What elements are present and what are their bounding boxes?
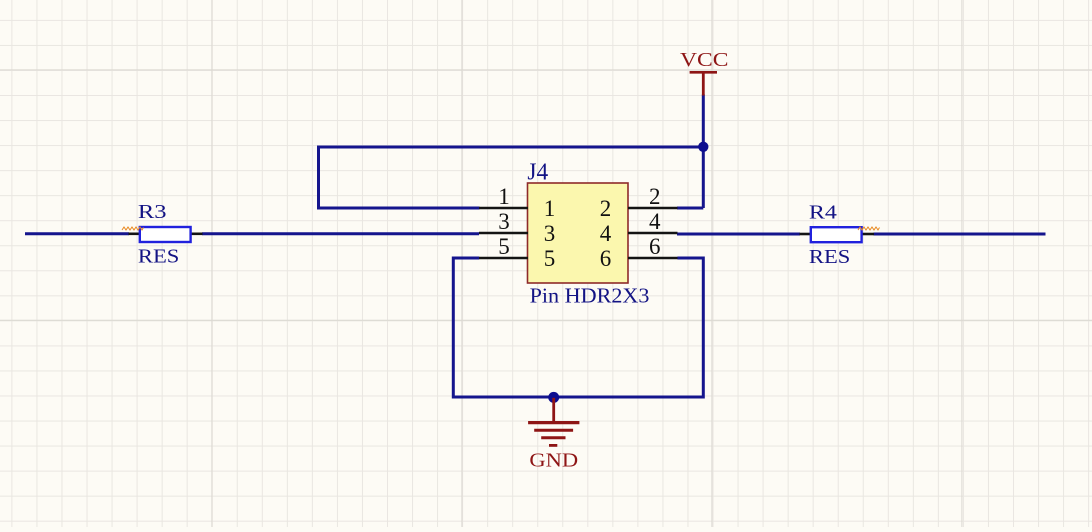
svg-text:R4: R4 (809, 202, 837, 224)
svg-text:4: 4 (649, 209, 661, 234)
node: junction at GND stem (548, 392, 559, 403)
resistor R4 body (811, 227, 862, 242)
compile-error squiggle at R3 left pin (122, 227, 144, 230)
resistor R4 right lead (862, 233, 875, 236)
svg-text:1: 1 (498, 184, 510, 209)
svg-text:3: 3 (544, 221, 556, 246)
svg-text:2: 2 (600, 196, 612, 221)
node: junction at VCC drop and top wire (698, 142, 708, 152)
pin 3 stub (479, 232, 528, 235)
resistor R3 left lead (129, 233, 141, 236)
ground GND symbol (528, 398, 579, 446)
wire: left net segment from x=25 to R3 (25, 232, 129, 235)
pin 1 stub (479, 207, 528, 210)
svg-text:J4: J4 (527, 160, 548, 186)
svg-text:R3: R3 (138, 201, 167, 223)
pin 5 stub (479, 257, 528, 260)
svg-text:GND: GND (529, 449, 578, 471)
svg-text:2: 2 (649, 184, 661, 209)
wire: pin4 to R4 (677, 233, 800, 236)
svg-text:1: 1 (544, 196, 556, 221)
wire: VCC vertical drop x=703.3 from stem to pin2 row (702, 95, 705, 209)
pin 6 stub (628, 257, 678, 260)
pin 4 stub (628, 232, 678, 235)
svg-text:6: 6 (600, 246, 612, 271)
resistor R3 right lead (191, 233, 203, 236)
svg-text:6: 6 (649, 234, 661, 259)
wire: R3 to pin3 (202, 232, 479, 235)
power VCC symbol (690, 72, 717, 95)
wire: R4 to right end (874, 233, 1046, 236)
svg-text:RES: RES (809, 246, 850, 268)
wire: VCC net top loop (horizontal y=147 and left vertical x=318.5 down to y=208) (319, 147, 704, 208)
svg-text:VCC: VCC (680, 49, 729, 71)
compile-error squiggle at R4 right pin (858, 227, 880, 230)
svg-text:3: 3 (498, 209, 510, 234)
wire: GND bottom loop (453, 258, 703, 397)
pin 2 stub (628, 207, 678, 210)
svg-text:5: 5 (544, 246, 556, 271)
svg-text:Pin HDR2X3: Pin HDR2X3 (530, 283, 650, 307)
svg-text:RES: RES (138, 246, 180, 268)
resistor R4 left lead (800, 233, 812, 236)
connector J4 body (528, 183, 629, 283)
svg-text:5: 5 (498, 234, 510, 259)
svg-text:4: 4 (600, 221, 612, 246)
wire: pin2 blue segment y=208 (677, 207, 703, 210)
resistor R3 body (140, 227, 191, 242)
